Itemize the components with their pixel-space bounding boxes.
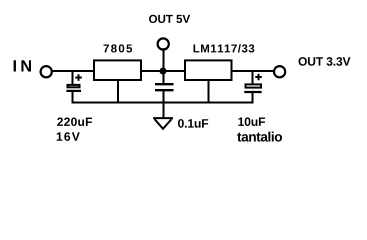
wire input to 7805 pin 1 <box>53 70 95 72</box>
wire C3 top drop <box>252 70 254 85</box>
capacitor C2 0.1uF top plate <box>155 83 174 85</box>
wire C2 to ground <box>163 90 165 118</box>
wire LM1117 out to output terminal <box>231 70 274 72</box>
wire U1 ground pin <box>117 81 119 104</box>
wire C1 bottom drop <box>72 92 74 104</box>
label 7805 <box>104 44 133 52</box>
junction node 5V <box>160 68 167 75</box>
wire ground rail <box>72 102 254 104</box>
value label 0.1uF <box>178 119 208 128</box>
capacitor C1 negative plate <box>66 90 81 92</box>
regulator U1 7805 box <box>94 60 141 80</box>
capacitor C2 bottom plate <box>155 89 174 91</box>
wire OUT 5V drop <box>163 48 165 71</box>
capacitor C3 10uF positive plate <box>246 84 262 87</box>
wire C1 top drop <box>72 70 74 85</box>
terminal OUT 5V <box>158 38 169 49</box>
ground symbol <box>153 117 173 119</box>
value label 16V <box>57 132 80 141</box>
value label 10uF <box>238 117 265 126</box>
label OUT 5V <box>149 15 190 23</box>
wire 7805 out to LM1117 in <box>141 70 186 72</box>
value label 220uF <box>57 118 92 127</box>
label IN <box>14 60 31 71</box>
capacitor C1 plus sign <box>75 74 82 81</box>
label LM1117/33 <box>194 44 255 53</box>
terminal IN <box>41 66 52 77</box>
label OUT 3.3V <box>299 57 351 66</box>
capacitor C3 plus sign <box>255 74 261 81</box>
capacitor C3 negative plate <box>244 91 261 93</box>
value label tantalio <box>237 132 282 142</box>
regulator U2 LM1117/33 box <box>185 60 232 80</box>
wire C2 top drop <box>163 71 165 84</box>
wire U2 ground pin <box>208 81 210 104</box>
terminal OUT 3.3V <box>274 66 285 77</box>
wire C3 bottom drop <box>252 93 254 104</box>
capacitor C1 220uF positive plate <box>68 85 80 87</box>
